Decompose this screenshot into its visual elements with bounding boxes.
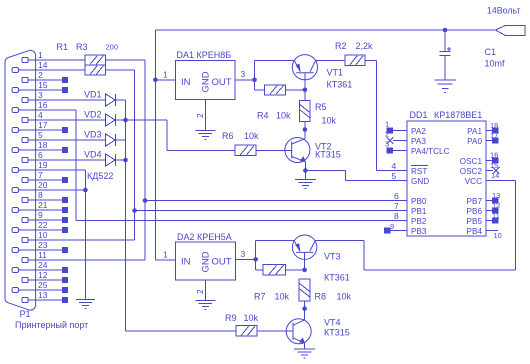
svg-text:R6: R6 xyxy=(222,131,234,141)
wire VT1 collector to R2 xyxy=(316,59,345,61)
DD1 pin 17 stub xyxy=(486,140,492,142)
ground tap square pin 7 xyxy=(62,177,68,183)
wire DA2 IN pin 1 xyxy=(155,259,175,261)
svg-text:24: 24 xyxy=(38,260,48,270)
wire R1 out to bus A xyxy=(105,59,145,61)
wire pin 16 to bus (PB2 net) xyxy=(18,109,75,111)
svg-text:15: 15 xyxy=(490,161,498,170)
wire DA1 OUT up to VT1 emitter xyxy=(254,60,256,80)
voltage regulator DA2 КРЕН5А box xyxy=(176,242,236,280)
junction VT2 emitter node xyxy=(303,168,308,173)
junction DA1 OUT node xyxy=(252,78,257,83)
wire DA2 GND pin 2 xyxy=(204,280,206,300)
connector pin 3 pad xyxy=(22,97,28,102)
svg-text:14: 14 xyxy=(491,171,499,180)
svg-text:КТ315: КТ315 xyxy=(324,328,350,338)
wire DA2 OUT down to R7 xyxy=(255,259,257,270)
svg-text:12: 12 xyxy=(38,270,48,280)
wire VT2 emitter to GND step xyxy=(305,170,345,172)
wire RST from R2 to DD1 pin 4 xyxy=(376,170,407,172)
VD bus x=125.5 (diode cathodes to R9) xyxy=(125,100,127,331)
connector pin 21 pad xyxy=(12,207,18,212)
svg-text:OSC1: OSC1 xyxy=(460,157,483,166)
svg-text:IN: IN xyxy=(181,257,191,268)
connector pin 15 pad xyxy=(12,87,18,92)
connector pin 5 pad xyxy=(22,137,28,142)
resistor R2 2,2k xyxy=(345,55,365,65)
resistor R3 200 xyxy=(85,65,105,75)
svg-text:3: 3 xyxy=(241,249,246,259)
svg-text:R3: R3 xyxy=(76,42,88,52)
svg-text:VD4: VD4 xyxy=(84,150,102,160)
svg-text:DA2 КРЕН5А: DA2 КРЕН5А xyxy=(177,232,232,242)
svg-text:17: 17 xyxy=(38,120,48,130)
junction DA2 OUT node xyxy=(253,257,258,262)
connector pin 7 pad xyxy=(22,177,28,182)
svg-text:22: 22 xyxy=(38,220,48,230)
svg-text:5: 5 xyxy=(392,171,397,181)
svg-text:R2: R2 xyxy=(335,41,347,51)
svg-text:18: 18 xyxy=(38,140,48,150)
connector pin 8 pad xyxy=(22,197,28,202)
ground under VT2 xyxy=(304,171,306,180)
svg-text:10: 10 xyxy=(38,230,48,240)
svg-text:16: 16 xyxy=(38,100,48,110)
svg-text:R8: R8 xyxy=(315,292,327,302)
svg-text:11: 11 xyxy=(492,211,500,220)
wire DA2 OUT up to VT3 emitter xyxy=(255,240,257,259)
DD1 pin 9 stub PB3 xyxy=(391,230,408,232)
connector pin 20 pad xyxy=(12,187,18,192)
svg-text:PA0: PA0 xyxy=(467,137,482,146)
wire GND to DD1 pin 5 xyxy=(346,180,408,182)
wire pin 1 to R1 xyxy=(28,59,85,61)
resistor R4 10k xyxy=(265,85,286,95)
connector pin 25 pad xyxy=(12,287,18,292)
connector P1 (DB25, Принтерный порт) outline xyxy=(5,50,36,310)
ground under VT4 xyxy=(294,348,315,350)
ground tap square pin 23 xyxy=(62,247,68,253)
connector pin 12 pad xyxy=(22,277,28,282)
junction DA1 IN tap xyxy=(153,78,158,83)
wire +14V rail xyxy=(155,29,495,31)
svg-text:PA3: PA3 xyxy=(411,137,426,146)
DD1 pin 11 stub xyxy=(486,220,492,222)
resistor R1 200 xyxy=(85,55,105,65)
svg-text:10k: 10k xyxy=(275,292,290,302)
svg-text:VD3: VD3 xyxy=(84,130,102,140)
bus C x=155.4 (+14V to DA1 IN, DA2 IN) xyxy=(154,30,156,260)
svg-text:PB5: PB5 xyxy=(467,217,483,226)
wire R4 to VT1 base xyxy=(286,89,305,91)
connector pin 14 pad xyxy=(12,67,18,72)
svg-text:2: 2 xyxy=(195,113,205,118)
connector pin 16 pad xyxy=(12,107,18,112)
ground tap square pin 25 xyxy=(62,287,68,293)
ground tap square pin 12 xyxy=(62,277,68,283)
connector pin 2 pad xyxy=(22,77,28,82)
svg-text:9: 9 xyxy=(390,222,394,231)
svg-text:VT4: VT4 xyxy=(324,318,341,328)
transistor VT1 КТ361 (PNP) xyxy=(292,55,317,80)
svg-text:PA4/TCLC: PA4/TCLC xyxy=(411,147,450,156)
svg-text:19: 19 xyxy=(38,160,48,170)
svg-text:КТ361: КТ361 xyxy=(327,80,353,90)
svg-text:6: 6 xyxy=(394,191,399,201)
ground tap square pin 15 xyxy=(62,87,68,93)
svg-text:10: 10 xyxy=(494,231,502,240)
svg-text:200: 200 xyxy=(106,43,119,52)
svg-text:25: 25 xyxy=(38,280,48,290)
wire VD3 cathode to VD bus xyxy=(115,139,125,141)
DD1 pin 10 stub xyxy=(486,230,498,232)
ground bus x=85.4 xyxy=(84,170,86,300)
svg-text:P1: P1 xyxy=(20,309,31,319)
junction VD2 node xyxy=(123,118,128,123)
svg-text:21: 21 xyxy=(38,200,48,210)
wire VT1 base down xyxy=(304,73,306,90)
DD1 pin 12 stub xyxy=(486,210,492,212)
wire pin 22 xyxy=(18,229,62,231)
IC DD1 КР1878ВЕ1 box xyxy=(407,121,486,236)
diode VD3 КД522 xyxy=(106,134,115,146)
svg-text:2,2k: 2,2k xyxy=(356,41,374,51)
wire R2 to RST net xyxy=(365,59,376,61)
svg-text:IN: IN xyxy=(181,77,191,88)
svg-text:Принтерный порт: Принтерный порт xyxy=(15,320,88,330)
wire R8 bottom to VT4 collector xyxy=(304,301,306,319)
wire pin 21 xyxy=(18,209,62,211)
wire pin 24 xyxy=(18,269,62,271)
svg-text:VCC: VCC xyxy=(465,177,482,186)
ground under C1 xyxy=(434,79,456,81)
wire DA1 IN pin 1 xyxy=(155,79,175,81)
svg-text:1: 1 xyxy=(163,250,168,260)
bus B x=134.6 (pin14/R3 to PB1, pin 10) xyxy=(134,70,136,240)
voltage regulator DA1 КРЕН8Б box xyxy=(175,61,235,100)
wire pin 3 to VD1 xyxy=(28,99,106,101)
wire GND step down xyxy=(345,171,347,181)
svg-text:2: 2 xyxy=(38,70,43,80)
svg-text:PA2: PA2 xyxy=(411,127,426,136)
wire VCC pin 14 xyxy=(486,180,515,182)
bus A x=145 (pin1/R1 to PB0, pin 11) xyxy=(144,60,146,260)
diode VD1 КД522 xyxy=(106,94,115,106)
wire pin 4 to VD2 xyxy=(28,119,106,121)
svg-text:КР1878ВЕ1: КР1878ВЕ1 xyxy=(434,110,482,120)
junction VT3 base node xyxy=(302,268,307,273)
DD1 pin 18 stub xyxy=(486,130,492,132)
wire VT2 emitter down xyxy=(304,162,306,171)
svg-text:7: 7 xyxy=(38,170,43,180)
svg-text:КТ315: КТ315 xyxy=(315,150,341,160)
wire pin 8 xyxy=(28,199,62,201)
svg-text:4: 4 xyxy=(392,161,397,171)
wire VT3 collector to VCC run xyxy=(315,239,364,241)
svg-text:8: 8 xyxy=(38,190,43,200)
ground under DA1 xyxy=(195,130,215,132)
svg-text:OUT: OUT xyxy=(212,257,232,268)
DD1 pin 3 stub xyxy=(393,150,407,152)
svg-text:10k: 10k xyxy=(322,116,337,126)
svg-text:DA1 КРЕН8Б: DA1 КРЕН8Б xyxy=(177,50,232,60)
wire pin 19 to ground bus xyxy=(18,169,85,171)
connector pin 18 pad xyxy=(12,147,18,152)
svg-text:PB0: PB0 xyxy=(411,197,427,206)
connector pin 1 pad xyxy=(22,57,28,62)
ground tap square pin 21 xyxy=(62,207,68,213)
svg-text:8: 8 xyxy=(394,211,399,221)
connector pin 11 pad xyxy=(22,257,28,262)
wire pin 7 xyxy=(28,179,62,181)
svg-text:VD1: VD1 xyxy=(84,90,102,100)
wire R9 to VT4 base xyxy=(257,330,293,332)
connector pin 4 pad xyxy=(22,117,28,122)
wire PB2 from pin16 bus xyxy=(76,220,407,222)
transistor VT4 КТ315 (NPN) xyxy=(286,319,311,344)
DD1 pin 16 stub xyxy=(486,160,492,162)
ground tap square pin 18 xyxy=(62,147,68,153)
svg-text:3: 3 xyxy=(38,90,43,100)
ground under DA2 xyxy=(195,299,215,301)
svg-text:10mf: 10mf xyxy=(485,59,506,69)
connector pin 9 pad xyxy=(22,217,28,222)
ground tap square pin 17 xyxy=(62,127,68,133)
resistor R6 10k xyxy=(235,145,256,155)
svg-text:9: 9 xyxy=(38,210,43,220)
wire pin 11 to bus A xyxy=(28,259,145,261)
wire pin 5 to VD3 xyxy=(28,139,106,141)
wire pin 23 xyxy=(18,249,62,251)
svg-text:13: 13 xyxy=(492,191,500,200)
wire pin 12 xyxy=(28,279,62,281)
wire VD1 cathode to VD bus xyxy=(115,99,125,101)
svg-text:23: 23 xyxy=(38,240,48,250)
capacitor C1 10mf xyxy=(444,30,446,51)
svg-text:7: 7 xyxy=(394,201,399,211)
svg-text:VD2: VD2 xyxy=(84,110,102,120)
connector pin 19 pad xyxy=(12,167,18,172)
wire pin 10 to bus B xyxy=(28,239,134,241)
junction pin 20 / ground bus xyxy=(83,188,88,193)
svg-text:15: 15 xyxy=(38,80,48,90)
wire pin 13 xyxy=(28,299,62,301)
connector pin 23 pad xyxy=(12,247,18,252)
svg-text:10k: 10k xyxy=(244,131,259,141)
resistor R9 10k xyxy=(236,326,257,336)
wire PB0 from bus A xyxy=(145,200,407,202)
junction R8/VT4 xyxy=(302,306,307,311)
ground tap square pin 13 xyxy=(62,297,68,303)
wire pin 18 xyxy=(18,149,62,151)
wire VD bus to R9 xyxy=(126,330,237,332)
wire DA2 OUT pin 3 xyxy=(236,258,256,260)
svg-text:GND: GND xyxy=(201,251,212,272)
DD1 pin 2 stub (nc) xyxy=(393,140,407,142)
power plug symbol 14Вольт xyxy=(496,25,526,35)
svg-text:VT3: VT3 xyxy=(324,252,341,262)
svg-text:2: 2 xyxy=(195,289,205,294)
resistor R7 10k xyxy=(263,265,286,276)
connector pin 10 pad xyxy=(22,237,28,242)
svg-text:17: 17 xyxy=(490,131,498,140)
svg-text:PB7: PB7 xyxy=(467,197,483,206)
wire R7 to VT3 base xyxy=(286,269,305,271)
svg-text:2: 2 xyxy=(385,130,389,139)
junction VD4 node xyxy=(123,158,128,163)
svg-text:КТ361: КТ361 xyxy=(324,273,350,283)
wire VD4 cathode to VD bus xyxy=(115,159,125,161)
svg-text:PB1: PB1 xyxy=(411,207,427,216)
junction VT1 base node xyxy=(303,88,308,93)
wire PB1 from bus B xyxy=(135,210,407,212)
svg-text:10k: 10k xyxy=(276,111,291,121)
DD1 pin 15 stub (nc) xyxy=(486,170,493,172)
wire DA1 GND pin 2 xyxy=(204,100,206,131)
DD1 pin 1 stub xyxy=(393,130,407,132)
svg-text:12: 12 xyxy=(492,201,500,210)
svg-text:13: 13 xyxy=(38,290,48,300)
svg-text:C1: C1 xyxy=(485,47,497,57)
connector pin 13 pad xyxy=(22,297,28,302)
svg-text:14Вольт: 14Вольт xyxy=(487,6,520,16)
transistor VT2 КТ315 (NPN) xyxy=(285,138,310,163)
diode VD4 КД522 xyxy=(106,154,115,166)
wire pin 15 xyxy=(18,89,62,91)
svg-text:КД522: КД522 xyxy=(87,171,113,181)
ground tap square pin 8 xyxy=(62,197,68,203)
wire R6 to VT2 base xyxy=(256,149,292,151)
wire R5 bottom to VT2 collector xyxy=(304,122,306,138)
ground tap square pin 24 xyxy=(62,267,68,273)
RST overline xyxy=(411,165,428,167)
resistor R8 10k xyxy=(299,279,310,301)
wire pin 9 xyxy=(28,219,62,221)
svg-text:OSC2: OSC2 xyxy=(460,167,483,176)
wire pin 2 xyxy=(28,79,62,81)
svg-text:10k: 10k xyxy=(337,292,352,302)
svg-text:20: 20 xyxy=(38,180,48,190)
svg-text:R1: R1 xyxy=(57,42,69,52)
svg-text:4: 4 xyxy=(38,110,43,120)
svg-text:3: 3 xyxy=(241,69,246,79)
ground tap square pin 9 xyxy=(62,217,68,223)
junction C1 tap xyxy=(443,28,448,33)
wire VT3 base down xyxy=(304,252,306,270)
wire pin 17 xyxy=(18,129,62,131)
ground symbol at connector ground bus xyxy=(76,299,95,301)
wire VT4 emitter to ground xyxy=(304,343,306,349)
junction on R5/VT2 wire xyxy=(303,127,308,132)
svg-text:OUT: OUT xyxy=(212,77,232,88)
svg-text:R9: R9 xyxy=(225,313,237,323)
svg-text:5: 5 xyxy=(38,130,43,140)
junction bus B / PB1 xyxy=(132,208,137,213)
svg-text:DD1: DD1 xyxy=(410,110,428,120)
svg-text:10k: 10k xyxy=(244,313,259,323)
svg-text:6: 6 xyxy=(38,150,43,160)
connector pin 22 pad xyxy=(12,227,18,232)
svg-text:11: 11 xyxy=(38,250,47,260)
svg-text:R7: R7 xyxy=(254,292,266,302)
svg-text:PB2: PB2 xyxy=(411,217,427,226)
svg-text:1: 1 xyxy=(38,50,43,60)
svg-text:GND: GND xyxy=(201,71,212,92)
svg-text:1: 1 xyxy=(385,120,389,129)
junction bus A / PB0 xyxy=(143,198,148,203)
DD1 pin 13 stub xyxy=(486,200,492,202)
svg-text:R4: R4 xyxy=(257,111,269,121)
svg-text:PB6: PB6 xyxy=(467,207,483,216)
svg-text:1: 1 xyxy=(163,70,168,80)
svg-text:GND: GND xyxy=(411,177,429,186)
svg-text:16: 16 xyxy=(490,151,498,160)
wire VD2 node to R6 (jog) xyxy=(115,119,167,121)
connector pin 24 pad xyxy=(12,267,18,272)
svg-text:RST: RST xyxy=(411,167,427,176)
transistor VT3 КТ361 (PNP) xyxy=(292,235,316,259)
svg-text:PB4: PB4 xyxy=(467,227,483,236)
wire VCC down and across to VT3 collector xyxy=(514,181,516,270)
svg-text:18: 18 xyxy=(490,121,498,130)
ground tap square pin 22 xyxy=(62,227,68,233)
wire pin 6 to VD4 xyxy=(28,159,106,161)
wire R3 out to bus B xyxy=(105,69,134,71)
svg-text:PA1: PA1 xyxy=(467,127,482,136)
wire pin 25 xyxy=(18,289,62,291)
wire DA1 OUT down to R4 xyxy=(254,80,256,90)
diode VD2 КД522 xyxy=(106,114,115,126)
ground tap square pin 2 xyxy=(62,77,68,83)
connector pin 6 pad xyxy=(22,157,28,162)
svg-text:3: 3 xyxy=(385,140,389,149)
svg-text:14: 14 xyxy=(38,60,48,70)
svg-text:PB3: PB3 xyxy=(411,227,427,236)
wire pin 14 to R3 xyxy=(18,69,85,71)
svg-text:R5: R5 xyxy=(315,102,327,112)
resistor R5 10k xyxy=(304,90,306,101)
svg-text:VT1: VT1 xyxy=(327,68,344,78)
wire DA1 OUT pin 3 xyxy=(235,79,255,81)
wire pin 20 to ground bus xyxy=(18,189,85,191)
connector pin 17 pad xyxy=(12,127,18,132)
